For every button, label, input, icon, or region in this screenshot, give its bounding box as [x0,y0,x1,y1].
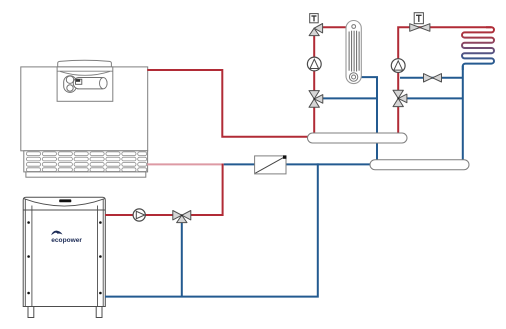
ecopower CHP unit cabinet [23,197,105,306]
three-way mixing valve V1 CHP loop [173,211,191,223]
wire left circuit riser red upper [313,35,315,90]
ecopower top sagging arc [24,199,105,206]
boiler B1 panel separator line [57,70,113,72]
three-way mixing valve V3 right circuit [393,90,407,106]
wire left circuit radiator return blue [361,77,378,160]
bypass valve BV1 [424,74,442,82]
svg-text:ecopower: ecopower [51,237,82,244]
wire main return blue (junction to return manifold) [224,163,371,165]
three-way mixing valve V2 left circuit [309,91,323,108]
boiler B1 grille slats [26,152,146,172]
wire right circuit valve return blue [407,97,463,99]
boiler B1 knob housing blob [64,76,77,93]
wire CHP supply red (ecopower to mixing valve) [105,214,173,216]
boiler B1 top housing bump [58,60,112,67]
boiler B1 panel arc [60,71,110,75]
boiler B1 base strip [26,172,146,177]
pump P1 CHP loop [133,209,145,221]
boiler B1 grille box [24,151,148,172]
wire left circuit riser red lower [313,107,315,134]
boiler B1 body [21,67,148,151]
ecopower leg right [96,307,102,318]
ecopower horizontal frame line [23,209,105,211]
thermostatic valve TV1 left circuit (angle) [309,14,323,36]
boiler B1 control panel box [57,67,113,101]
wire bypass line blue [400,77,463,79]
ecopower logo dolphin [51,231,62,236]
heat exchanger HX [255,155,287,174]
wire left circuit valve return blue [323,97,377,99]
boiler B1 knob 2 [67,85,73,91]
boiler B1 slider end dial [100,78,108,89]
wire right circuit riser red lower [397,106,399,134]
wire CHP riser red (junction down to mixing valve) [190,164,223,215]
pump P2 left circuit [307,57,321,71]
wire left circuit supply to radiator red [322,26,347,28]
ecopower top slot [59,199,71,202]
wire mixing valve return blue drop [181,222,183,296]
return manifold [370,160,469,170]
boiler B1 display slider capsule [73,78,107,89]
pump P3 right circuit [391,59,405,73]
ecopower screws right [99,221,102,224]
radiator [346,21,361,84]
ecopower left rail [24,200,26,307]
wire boiler return pink [147,163,224,165]
floor heating coil serpentine [462,27,494,70]
wire right circuit coil return blue drop [462,66,464,161]
ecopower right rail [102,200,104,307]
wire right circuit riser red upper and top run [398,27,491,90]
ecopower leg left [28,307,34,318]
wire CHP return blue (bottom loop) [105,163,318,296]
boiler B1 small display [76,79,82,84]
ecopower screws left [27,221,30,224]
wire boiler supply red (boiler to supply manifold) [147,70,309,137]
thermostatic valve TV2 right circuit [410,13,430,32]
boiler B1 knob 1 [66,76,73,83]
supply manifold [308,133,408,143]
